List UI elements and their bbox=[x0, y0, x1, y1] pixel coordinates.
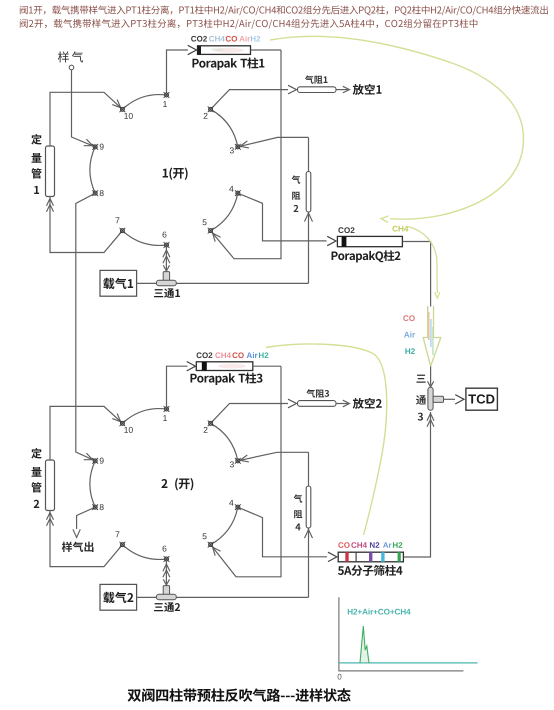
column C1 Porapak T body bbox=[198, 46, 251, 55]
node sample inlet circle bbox=[69, 65, 74, 70]
annotation curve CH4 down right rail bbox=[408, 227, 440, 299]
label 气阻4 bbox=[294, 494, 303, 530]
wire R1 to vent arrow bbox=[336, 86, 350, 93]
wire C4 outlet up to tee T3 bbox=[403, 412, 430, 557]
wire tee T1 up to V1 port 6 bbox=[165, 248, 167, 272]
label gases above C4 bbox=[338, 542, 402, 548]
label peak H2+Air+CO+CH4 bbox=[348, 609, 411, 615]
flow arrows into loop 1 bottom bbox=[47, 199, 54, 212]
column C4 bands bbox=[345, 552, 401, 562]
flow arrow down into tee T1 bbox=[163, 265, 169, 271]
wire loop1 bottom to V1 port 7 bbox=[50, 197, 122, 253]
wire V2 port1 to column C3 inlet bbox=[167, 362, 196, 410]
restrictor R2 气阻2 body bbox=[306, 172, 311, 213]
wire V1 port2 to restrictor R1 bbox=[211, 85, 297, 109]
label sample gas in (样气) bbox=[58, 51, 83, 62]
valve V1 rotor channel 6-7 bbox=[122, 231, 166, 246]
column C1 inner smudge bbox=[210, 48, 244, 53]
wire tee T2 to restrictor junction bbox=[176, 596, 308, 598]
sample loop tube 定量管2 bbox=[46, 460, 55, 511]
label TCD bbox=[468, 394, 494, 403]
wire V2 port4 to column C4 bbox=[238, 507, 337, 561]
column C2 Porapak Q body bbox=[337, 236, 402, 246]
label 三通3 bbox=[416, 375, 426, 421]
label 载气2 bbox=[103, 592, 133, 603]
valve V2 rotor channel 1-10 bbox=[122, 409, 166, 424]
valve V1 rotor channel 4-5 bbox=[211, 193, 238, 231]
wire V1 port10 feed from loop top bbox=[50, 92, 121, 146]
label H2 right bbox=[405, 348, 415, 354]
valve V2 rotor channel 8-9 bbox=[90, 461, 95, 507]
wire R3 to vent arrow bbox=[336, 400, 350, 407]
wire V1 port4 to column C2 bbox=[238, 193, 336, 246]
wire V1 port1 to column C1 inlet bbox=[167, 45, 197, 95]
wire right rail down to V1 port 5 bbox=[213, 50, 281, 259]
wire C1 outlet to right rail bbox=[251, 49, 282, 51]
tee T1 三通1 body bbox=[156, 272, 176, 286]
restrictor R4 气阻4 body bbox=[306, 486, 311, 528]
band Air in channel bbox=[430, 319, 432, 347]
label column C1 (Porapak T柱1) bbox=[192, 57, 264, 70]
label column C2 (PorapakQ柱2) bbox=[332, 250, 401, 262]
header text line 1 bbox=[20, 5, 548, 15]
wire restrictor R2 vertical bbox=[308, 137, 310, 283]
wire tee T1 to restrictor junction bbox=[176, 282, 308, 284]
flow arrows up into V1 port6 bbox=[163, 250, 170, 263]
valve V2 ports bbox=[92, 406, 240, 562]
label 气阻3 bbox=[306, 389, 329, 397]
detector TCD box bbox=[466, 388, 498, 410]
label 三通2 bbox=[154, 602, 180, 612]
wire flow graphic to tee T3 bbox=[428, 367, 434, 388]
sample loop tube 定量管1 bbox=[46, 146, 55, 197]
label vent 2 (放空2) bbox=[353, 398, 382, 409]
chromatogram peak bbox=[360, 626, 369, 663]
label sample out (样气出) bbox=[62, 542, 94, 552]
label gases above C3 bbox=[197, 352, 269, 358]
valve V1 port numbers bbox=[100, 101, 234, 237]
annotation curve (C3 to C4) bbox=[266, 344, 387, 535]
flow arrows up into tee T3 bbox=[427, 414, 434, 427]
wire V2 port8 to sample outlet bbox=[73, 507, 95, 537]
restrictor R3 气阻3 body bbox=[298, 401, 337, 407]
label 定量管1 bbox=[31, 134, 41, 194]
column C4 5A body bbox=[338, 552, 403, 562]
wire 载气2 to tee T2 bbox=[137, 596, 157, 598]
band H2 in channel bbox=[432, 327, 434, 355]
label origin 0 bbox=[338, 674, 342, 680]
label CH4 at C2 bbox=[392, 226, 408, 232]
label valve V1 state 1(开) bbox=[163, 168, 188, 180]
valve V2 rotor channel 4-5 bbox=[211, 507, 238, 545]
wire V1 port8 to V2 port9 (sample link) bbox=[76, 193, 95, 460]
wire tee T2 up to V2 port 6 bbox=[165, 562, 167, 586]
title 双阀四柱带预柱反吹气路---进样状态 bbox=[128, 688, 351, 702]
carrier gas box 载气1 bbox=[100, 270, 137, 296]
wire right rail down to V2 port 5 bbox=[213, 366, 281, 577]
label Air right bbox=[404, 332, 415, 338]
label vent 1 (放空1) bbox=[353, 84, 382, 95]
wire 载气1 to tee T1 bbox=[137, 282, 157, 284]
label valve V2 state 2（开） bbox=[161, 478, 193, 490]
restrictor R1 气阻1 body bbox=[298, 87, 337, 93]
annotation curve CH4 path (C1 to C2) bbox=[270, 36, 523, 222]
label CO right bbox=[403, 315, 415, 321]
wire restrictor R4 vertical bbox=[308, 452, 310, 597]
wire V2 port10 feed from loop2 top bbox=[50, 406, 121, 460]
label 气阻2 bbox=[292, 175, 301, 212]
wire C3 outlet to right rail bbox=[253, 365, 281, 367]
carrier gas box 载气2 bbox=[100, 584, 137, 610]
valve V2 rotor channel 6-7 bbox=[122, 545, 166, 560]
chromatogram axes bbox=[339, 597, 464, 671]
wire loop2 bottom to V2 port 7 bbox=[50, 511, 122, 567]
label 定量管2 bbox=[31, 448, 41, 508]
label 气阻1 bbox=[305, 75, 328, 83]
valve V1 rotor channel 1-10 bbox=[122, 95, 166, 110]
column C3 retained CO2 band bbox=[202, 362, 207, 371]
column C3 Porapak T body bbox=[196, 362, 253, 371]
wire sample inlet to V1 port 9 bbox=[72, 70, 94, 146]
column C1 retained band bbox=[198, 46, 202, 55]
wire V1 port3 from restrictor R2 branch bbox=[240, 137, 308, 148]
valve V2 port numbers bbox=[100, 415, 234, 551]
column C2 CO2 band bbox=[342, 236, 347, 246]
label CO2 at C2 bbox=[338, 227, 354, 233]
valve V1 rotor channel 2-3 bbox=[211, 109, 238, 147]
tee T3 三通3 body bbox=[428, 387, 444, 410]
chromatogram baseline bbox=[339, 662, 478, 664]
valve V1 ports bbox=[92, 92, 240, 248]
header text line 2 bbox=[20, 19, 478, 29]
flow arrows up into V2 port6 bbox=[163, 564, 170, 577]
flow channel walls bbox=[428, 307, 434, 339]
flow arrows into loop 2 bottom bbox=[47, 513, 54, 526]
wire C2 outlet down to flow graphic bbox=[402, 242, 430, 307]
label 三通1 bbox=[154, 288, 180, 298]
hand-drawn big arrow down bbox=[423, 307, 441, 366]
tee T2 三通2 body bbox=[156, 586, 176, 600]
wire tee T3 to TCD bbox=[444, 395, 465, 404]
wire V2 port2 to restrictor R3 bbox=[211, 399, 297, 423]
valve V2 rotor channel 2-3 bbox=[211, 423, 238, 461]
flow arrow down into tee T2 bbox=[163, 579, 169, 585]
column C3 inner smudge bbox=[218, 364, 246, 369]
flow arrow up into R2 bbox=[305, 213, 313, 222]
label column C4 (5A分子筛柱4) bbox=[338, 565, 403, 576]
label 载气1 bbox=[103, 278, 133, 289]
flow arrow up into R4 bbox=[305, 530, 313, 539]
valve V1 rotor channel 8-9 bbox=[90, 147, 95, 193]
band CO in channel bbox=[428, 312, 430, 340]
label gases above C1 bbox=[191, 36, 260, 42]
wire V2 port3 from restrictor R4 branch bbox=[240, 452, 308, 462]
label column C3 (Porapak T柱3) bbox=[190, 372, 262, 385]
